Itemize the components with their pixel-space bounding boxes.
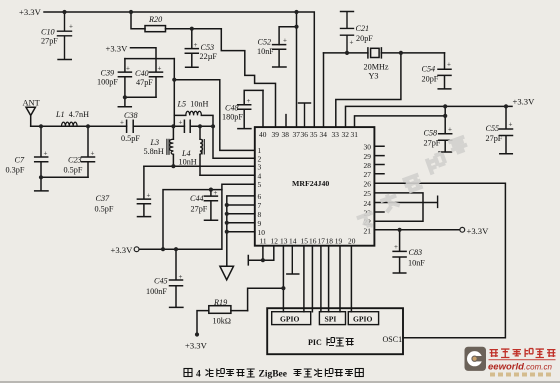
- svg-text:24: 24: [364, 199, 372, 208]
- wire: pin 2 from RF node: [213, 126, 255, 158]
- wire: RF input line: [31, 125, 127, 127]
- svg-text:L5 10nH: L5 10nH: [177, 100, 209, 109]
- capacitor C41 (series coupling): [184, 120, 213, 132]
- capacitor C52: [273, 45, 286, 67]
- node: gnd bus pin8: [225, 212, 229, 216]
- node: C52 tap: [294, 25, 298, 29]
- node: gnd bus pin10: [225, 230, 229, 234]
- SPI block: [319, 312, 345, 325]
- svg-text:+: +: [126, 65, 130, 73]
- wire: pins 6-10 ground bus: [227, 196, 255, 266]
- svg-text:ZigBee: ZigBee: [259, 370, 288, 380]
- node: +3.3V/C44 branch: [161, 247, 165, 251]
- svg-text:9: 9: [258, 219, 262, 228]
- capacitor C23: [82, 126, 95, 177]
- svg-text:+: +: [158, 65, 162, 73]
- wire: pin 32 +3.3V line: [346, 106, 513, 127]
- svg-text:C7: C7: [15, 156, 25, 165]
- svg-text:32: 32: [342, 130, 350, 139]
- inductor L1: [62, 122, 78, 126]
- capacitor C44: [204, 190, 217, 221]
- node: ANT/C7: [39, 124, 43, 128]
- wire: +3.3V feed to C39/C40 bus: [125, 48, 174, 59]
- svg-text:C55: C55: [486, 124, 500, 133]
- svg-text:28: 28: [364, 161, 372, 170]
- node: rail/C52-pin37: [294, 10, 298, 14]
- node: RF/L5/pin2: [211, 124, 215, 128]
- svg-text:+: +: [214, 189, 218, 197]
- wire: C7/C23 common to termination: [35, 177, 88, 191]
- wire: +3.3V line bottom left: [139, 190, 222, 250]
- label: PIC hanzi: [327, 338, 354, 347]
- node: pin21/C83: [398, 228, 402, 232]
- svg-text:+: +: [247, 97, 251, 105]
- capacitor C55: [500, 106, 513, 153]
- svg-text:7: 7: [258, 201, 262, 210]
- svg-text:29: 29: [364, 152, 372, 161]
- node: +3.3V/C58: [443, 104, 447, 108]
- wire: pin 14 stub termination: [287, 246, 299, 274]
- svg-text:100nF: 100nF: [146, 287, 167, 296]
- svg-text:20pF: 20pF: [422, 75, 439, 84]
- svg-text:39: 39: [272, 130, 280, 139]
- capacitor C21: [341, 12, 354, 53]
- svg-text:0.5pF: 0.5pF: [64, 166, 83, 175]
- wire: pin 3 line: [144, 165, 255, 167]
- svg-text:C52: C52: [258, 38, 272, 47]
- svg-text:C58: C58: [424, 129, 438, 138]
- svg-text:L3: L3: [150, 138, 160, 147]
- node: pin31/C58: [443, 114, 447, 118]
- svg-text:0.5pF: 0.5pF: [121, 134, 140, 143]
- wire: pin 26 to OSC1: [374, 183, 505, 337]
- wire: pin 13 branch to R19: [248, 288, 284, 310]
- svg-text:40: 40: [259, 130, 267, 139]
- svg-text:8: 8: [258, 210, 262, 219]
- node: C7 bottom: [39, 175, 43, 179]
- svg-text:+3.3V: +3.3V: [513, 97, 536, 107]
- wire: pin 24 termination: [374, 196, 437, 207]
- svg-text:R20: R20: [148, 15, 162, 24]
- svg-text:35: 35: [310, 130, 318, 139]
- terminal: +3.3V bottom left: [134, 247, 139, 252]
- node: +3.3V/C45: [174, 247, 178, 251]
- capacitor C37: [137, 166, 150, 216]
- wire: pin 34 to crystal: [323, 53, 325, 127]
- svg-text:33: 33: [332, 130, 340, 139]
- resistor R19: [209, 306, 231, 314]
- svg-text:20: 20: [348, 237, 356, 246]
- svg-text:10nH: 10nH: [179, 157, 197, 166]
- svg-text:C45: C45: [154, 277, 168, 286]
- svg-text:38: 38: [282, 130, 290, 139]
- svg-text:+: +: [194, 41, 198, 49]
- logo icon: [465, 347, 487, 371]
- svg-text:10kΩ: 10kΩ: [213, 317, 232, 326]
- inductor L4: [199, 126, 201, 175]
- svg-text:30: 30: [364, 143, 372, 152]
- wire: pin 31 line to C58: [355, 116, 446, 127]
- GPIO block 1: [272, 312, 311, 325]
- node: +3.3V/C55: [504, 104, 508, 108]
- svg-text:5.8nH: 5.8nH: [144, 147, 164, 156]
- svg-text:27pF: 27pF: [486, 134, 503, 143]
- wire: C52 tap: [279, 12, 296, 127]
- svg-text:+3.3V: +3.3V: [106, 44, 129, 54]
- wire: pins 25-22 loop: [374, 193, 423, 221]
- svg-text:+: +: [120, 119, 124, 127]
- svg-text:+3.3V: +3.3V: [19, 7, 42, 17]
- svg-text:+: +: [509, 121, 513, 129]
- node: C21/crystal: [345, 51, 349, 55]
- capacitor C7: [35, 126, 48, 177]
- node: crystal right: [399, 51, 403, 55]
- capacitor C48: [238, 90, 263, 128]
- crystal Y3: [368, 48, 382, 58]
- svg-text:31: 31: [351, 130, 359, 139]
- svg-text:+: +: [394, 243, 398, 251]
- chip labels: [258, 130, 373, 347]
- PIC microcontroller box: [267, 308, 403, 354]
- svg-text:R19: R19: [213, 298, 227, 307]
- svg-text:+: +: [350, 39, 354, 47]
- svg-text:L1 4.7nH: L1 4.7nH: [55, 110, 89, 119]
- node: RF/L4: [198, 124, 202, 128]
- capacitor C53: [185, 29, 198, 68]
- svg-text:C53: C53: [201, 43, 215, 52]
- svg-text:6: 6: [258, 192, 262, 201]
- svg-text:+: +: [283, 37, 287, 45]
- svg-text:+: +: [69, 23, 73, 31]
- ground: [220, 266, 234, 280]
- inductor L5: [174, 115, 213, 126]
- node: C44 top: [209, 188, 213, 192]
- svg-text:27: 27: [364, 170, 372, 179]
- svg-text:C39: C39: [101, 69, 115, 78]
- wire: crystal line: [324, 52, 445, 54]
- wire: pin 5 / C44 line: [163, 184, 255, 249]
- svg-text:+: +: [448, 126, 452, 134]
- svg-text:10nF: 10nF: [408, 259, 425, 268]
- svg-text:25: 25: [364, 189, 372, 198]
- node: R20/C53: [190, 27, 194, 31]
- node: rail/C10: [62, 10, 66, 14]
- svg-text:16: 16: [309, 237, 317, 246]
- wire: right pin stubs 30-27,23: [374, 146, 384, 212]
- svg-text:10nF: 10nF: [257, 47, 274, 56]
- svg-text:ANT: ANT: [23, 99, 40, 108]
- node: gnd bus pin9: [225, 221, 229, 225]
- svg-text:12: 12: [271, 237, 279, 246]
- svg-text:+3.3V: +3.3V: [467, 226, 490, 236]
- svg-text:20pF: 20pF: [356, 34, 373, 43]
- svg-text:GPIO: GPIO: [280, 315, 300, 324]
- capacitor C10: [58, 12, 72, 60]
- svg-text:0.5pF: 0.5pF: [95, 205, 114, 214]
- node: R19 +3.3V: [195, 332, 199, 336]
- watermark: [343, 137, 482, 230]
- svg-text:GPIO: GPIO: [353, 315, 373, 324]
- svg-text:C37: C37: [96, 194, 111, 203]
- svg-text:C83: C83: [409, 248, 423, 257]
- node: bias junction: [172, 78, 176, 82]
- svg-text:Y3: Y3: [369, 72, 379, 81]
- svg-text:+3.3V: +3.3V: [111, 245, 134, 255]
- plus marks: [44, 23, 513, 282]
- capacitor C40: [150, 59, 163, 98]
- capacitor C39: [118, 59, 131, 98]
- svg-text:5: 5: [258, 180, 262, 189]
- svg-text:OSC1: OSC1: [383, 335, 403, 344]
- svg-text:C48: C48: [225, 104, 239, 113]
- svg-text:C21: C21: [356, 24, 370, 33]
- capacitor C58: [439, 106, 452, 152]
- logo slogan: [490, 373, 551, 377]
- svg-text:27pF: 27pF: [41, 37, 58, 46]
- wire: pins 11,12 to termination: [248, 246, 273, 265]
- antenna ANT: [26, 107, 35, 126]
- wire: pin 36 termination: [299, 103, 311, 127]
- node: L3 bottom/pin3: [171, 164, 175, 168]
- svg-text:+: +: [179, 119, 183, 127]
- wire: pin 4 line from L4: [200, 174, 255, 176]
- capacitor C54: [438, 53, 451, 89]
- svg-text:C54: C54: [422, 65, 436, 74]
- inductor L3: [172, 126, 174, 166]
- svg-text:+: +: [179, 273, 183, 281]
- wire: pin 13 down to GPIO: [282, 246, 284, 312]
- caption 图4 ...: [184, 369, 363, 380]
- wire: R20/C53 node staircase to pin 39: [221, 29, 275, 127]
- svg-text:SPI: SPI: [325, 315, 337, 324]
- svg-text:C44: C44: [190, 194, 204, 203]
- svg-text:4: 4: [196, 370, 201, 380]
- svg-text:13: 13: [280, 237, 288, 246]
- svg-text:36: 36: [301, 130, 309, 139]
- wire: top +3.3V rail, right end drops to pin 35: [44, 12, 314, 127]
- svg-text:180pF: 180pF: [222, 113, 243, 122]
- capacitor C83: [393, 230, 406, 273]
- svg-text:+3.3V: +3.3V: [185, 341, 208, 351]
- logo underline: [489, 358, 556, 361]
- terminal: +3.3V right: [460, 227, 465, 232]
- wire: bias node right and down to pin 1: [174, 80, 255, 151]
- wire: C39/C40 bottoms joined, to termination: [118, 97, 156, 107]
- node: C39 bottom: [123, 95, 127, 99]
- svg-text:0.3pF: 0.3pF: [6, 166, 25, 175]
- svg-text:34: 34: [320, 130, 328, 139]
- svg-text:14: 14: [289, 237, 297, 246]
- wire: crystal right to pin 33 staircase: [336, 53, 401, 127]
- capacitor C45: [170, 249, 183, 307]
- svg-text:27pF: 27pF: [191, 205, 208, 214]
- svg-text:C40: C40: [135, 69, 149, 78]
- svg-text:+: +: [91, 150, 95, 158]
- GPIO block 2: [348, 312, 378, 325]
- node: L1/C23: [86, 124, 90, 128]
- open terminals: [134, 227, 464, 251]
- eeworld logo: [465, 347, 556, 377]
- svg-text:26: 26: [364, 180, 372, 189]
- wire: pin 21 to +3.3V: [374, 229, 459, 231]
- node: pin11: [261, 258, 265, 262]
- bottom edge shadow: [0, 381, 560, 383]
- svg-text:C23: C23: [68, 156, 82, 165]
- chip MRF24J40: [255, 127, 375, 246]
- svg-text:17: 17: [318, 237, 326, 246]
- capacitor C38 (series): [127, 120, 185, 132]
- svg-text:+: +: [147, 192, 151, 200]
- node: RF/L3: [171, 124, 175, 128]
- node: rail/R20: [129, 10, 133, 14]
- svg-text:100pF: 100pF: [97, 78, 118, 87]
- svg-text:11: 11: [260, 237, 267, 246]
- svg-text:+: +: [447, 61, 451, 69]
- svg-text:+: +: [44, 150, 48, 158]
- svg-text:27pF: 27pF: [424, 139, 441, 148]
- resistor R20: [131, 12, 145, 29]
- svg-text:18: 18: [326, 237, 334, 246]
- svg-text:20MHz: 20MHz: [364, 63, 389, 72]
- node: gnd bus pin7: [225, 203, 229, 207]
- node: pin13: [281, 286, 285, 290]
- logo title hanzi (red): [490, 349, 556, 358]
- wire: pins 15-20 to PIC blocks: [304, 246, 352, 312]
- svg-text:MRF24J40: MRF24J40: [292, 179, 329, 188]
- svg-text:37: 37: [293, 130, 301, 139]
- svg-text:22µF: 22µF: [200, 52, 218, 61]
- wire: bias node down to RF line: [173, 59, 175, 127]
- svg-text:47pF: 47pF: [136, 78, 153, 87]
- svg-text:C38: C38: [124, 111, 138, 120]
- wire: top pin stubs 40,38: [263, 90, 286, 127]
- svg-text:3: 3: [258, 163, 262, 172]
- svg-text:eeworld.com.cn: eeworld.com.cn: [488, 362, 552, 373]
- svg-text:15: 15: [301, 237, 309, 246]
- svg-text:19: 19: [335, 237, 343, 246]
- svg-text:C10: C10: [41, 28, 55, 37]
- svg-text:PIC: PIC: [308, 338, 322, 347]
